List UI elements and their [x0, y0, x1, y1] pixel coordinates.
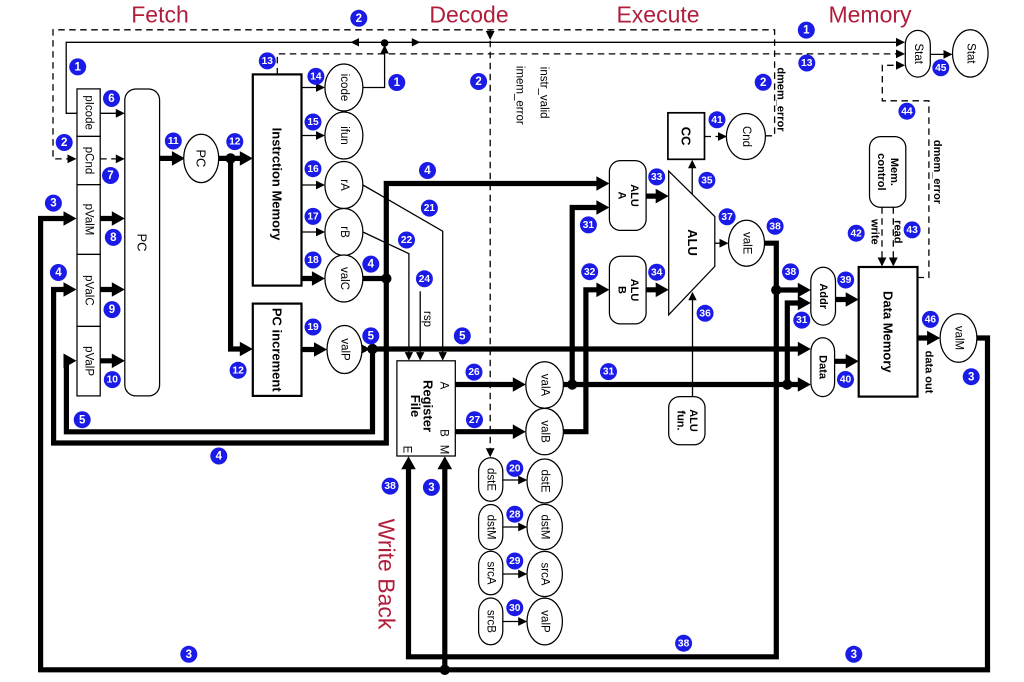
svg-text:9: 9 [109, 304, 115, 316]
node valC [325, 255, 363, 302]
svg-text:12: 12 [229, 137, 241, 148]
annotation circle 3 [845, 646, 862, 663]
wire dmem_error dashed (net 44): Data Memory -> Stat [882, 65, 929, 277]
annotation circle 31 [580, 216, 597, 233]
svg-text:Stat: Stat [912, 43, 924, 64]
arrowhead valA into Data [798, 377, 811, 392]
wire valC (net 4): valC -> ALU A and pValC [363, 276, 386, 281]
wire Register File M input vertical (net 3) [442, 462, 447, 670]
svg-text:valC: valC [338, 267, 350, 290]
svg-text:10: 10 [107, 375, 119, 386]
wire valA (net 31): valA -> ALU A, Addr, Data [563, 382, 787, 387]
svg-text:data out: data out [922, 351, 934, 394]
annotation circle 3 [45, 195, 62, 212]
wire CC to Cnd dashed [705, 136, 723, 138]
annotation circle 1 [69, 58, 86, 75]
svg-text:5: 5 [79, 414, 86, 426]
svg-text:43: 43 [906, 225, 918, 236]
svg-text:CC: CC [679, 127, 694, 146]
svg-text:2: 2 [475, 76, 481, 88]
annotation circle 43 [904, 221, 921, 238]
arrowhead pIcode into PC block [116, 109, 125, 118]
svg-text:45: 45 [935, 63, 947, 74]
annotation circle 5 [74, 411, 91, 428]
svg-text:PC: PC [194, 149, 209, 167]
arrowhead right direction marker on icode line [412, 38, 421, 46]
register PC [184, 134, 219, 182]
annotation circle 1 [388, 74, 405, 91]
svg-text:12: 12 [232, 365, 244, 376]
svg-text:rA: rA [338, 179, 350, 191]
svg-text:1: 1 [394, 77, 401, 89]
arrowhead write into Data Memory [878, 258, 887, 267]
alu ALU trapezoid [669, 171, 715, 315]
wire IM to valC (net 18) [302, 276, 320, 281]
mux Data [811, 338, 835, 397]
svg-text:PC: PC [135, 233, 150, 251]
annotation circle 12 [230, 362, 247, 379]
arrowhead up into junction [380, 45, 388, 54]
wire pCnd to PC logic dashed (net 7) [100, 158, 119, 160]
svg-text:dstM: dstM [539, 515, 551, 540]
annotation circle 38 [767, 218, 784, 235]
svg-text:pCnd: pCnd [83, 147, 95, 175]
wire rB to Register File B select (net 22) [363, 232, 409, 356]
svg-text:Memory: Memory [828, 2, 912, 28]
annotation circle 15 [305, 114, 322, 131]
block srcA select [479, 551, 503, 595]
arrowhead rB select into Register File [405, 352, 413, 361]
svg-text:PC increment: PC increment [270, 308, 285, 392]
svg-text:dstE: dstE [485, 468, 497, 491]
svg-text:2: 2 [356, 13, 362, 25]
annotation circle 2 [470, 73, 487, 90]
svg-text:27: 27 [469, 415, 481, 426]
wire mem control read dashed (net 43) [892, 207, 894, 261]
wire Register File A output to valA (net 26) [455, 382, 520, 387]
arrowhead ALU B into ALU [656, 283, 669, 298]
register pValP [77, 326, 100, 396]
wire srcA to srcA (net 29) [503, 573, 522, 575]
node srcA [527, 551, 562, 596]
annotation circle 3 [423, 479, 440, 496]
arrowhead E input into Register File [401, 456, 416, 469]
wire icode line (net 1): icode -> pIcode and Stat [363, 49, 385, 88]
annotation circle 36 [697, 305, 714, 322]
annotation circle 21 [421, 200, 438, 217]
wire valP (net 5): valP -> Data and pValP [362, 346, 366, 351]
arrowhead valM into pValM [64, 211, 77, 226]
arrowhead icode into Stat [896, 38, 905, 47]
svg-text:E: E [401, 446, 413, 454]
svg-text:4: 4 [55, 267, 62, 279]
wire ALU A output to ALU (net 33) [646, 194, 663, 199]
svg-text:valB: valB [539, 420, 551, 443]
annotation circle 12 [226, 133, 243, 150]
wire dstE to dstE (net 20) [503, 479, 522, 481]
wire valP branch down to pValP [66, 349, 372, 432]
arrowhead into dstE ellipse [518, 476, 527, 485]
svg-text:Write Back: Write Back [374, 519, 400, 630]
svg-text:fun.: fun. [675, 410, 687, 430]
wire IM to ifun (net 15) [302, 135, 320, 137]
arrowhead pValP into PC block [112, 354, 125, 369]
annotation circle 34 [648, 264, 665, 281]
svg-text:18: 18 [307, 255, 319, 266]
svg-text:control: control [875, 153, 887, 190]
svg-text:38: 38 [769, 221, 781, 232]
node junction valA at ALU A tap [567, 379, 577, 389]
arrowhead Data into Data Memory [846, 354, 859, 369]
arrowhead into rA [316, 181, 325, 190]
svg-text:Fetch: Fetch [131, 2, 189, 28]
svg-text:17: 17 [307, 212, 319, 223]
wire PC branch down to PC increment (net 12) [231, 158, 247, 349]
arrowhead left direction marker on icode line [351, 38, 360, 46]
annotation circle 20 [506, 460, 523, 477]
wire pIcode to PC logic (net 6) [100, 112, 119, 114]
svg-text:28: 28 [509, 509, 521, 520]
arrowhead Addr into Data Memory [846, 292, 859, 307]
wire Cnd feedback dashed (net 2): Cnd -> top -> pCnd [53, 30, 775, 159]
arrowhead into pCnd [68, 155, 77, 164]
svg-text:21: 21 [424, 203, 436, 214]
block dstE select [479, 458, 503, 502]
block Mem. control [870, 137, 906, 208]
arrowhead ALU A into ALU [656, 189, 669, 204]
svg-text:ALU: ALU [687, 409, 699, 432]
annotation circle 39 [837, 272, 854, 289]
node junction valA at Addr tap [782, 379, 792, 389]
svg-text:36: 36 [699, 308, 711, 319]
svg-text:Stat: Stat [964, 43, 976, 64]
wire valE feedback (net 38): valE -> Addr and Register File E [409, 243, 777, 657]
wire rsp constant (net 24) [419, 291, 421, 355]
svg-text:Data: Data [817, 355, 829, 380]
annotation circle 2 [755, 74, 772, 91]
svg-text:Data Memory: Data Memory [881, 291, 896, 373]
wire ALU to CC (net 35) [691, 165, 693, 194]
svg-text:7: 7 [107, 170, 113, 182]
annotation circle 27 [466, 411, 483, 428]
arrowhead into valB [513, 424, 526, 439]
arrowhead read into Data Memory [889, 258, 898, 267]
svg-text:File: File [408, 395, 423, 417]
svg-text:imem_error: imem_error [514, 66, 526, 125]
node junction valE wire at Addr tap [771, 285, 781, 295]
annotation circle 4 [50, 264, 67, 281]
svg-text:dstE: dstE [539, 469, 551, 492]
annotation circle 31 [600, 363, 617, 380]
svg-text:srcA: srcA [539, 563, 551, 586]
arrowhead into PC register [172, 151, 185, 166]
svg-text:M: M [438, 445, 450, 455]
wire icode horizontal run [66, 42, 899, 113]
wire rA to Register File A select (net 21) [363, 185, 443, 356]
block srcB select [479, 598, 503, 645]
annotation circle 32 [581, 263, 598, 280]
annotation circle 7 [102, 167, 119, 184]
node valM [940, 314, 977, 363]
svg-text:3: 3 [50, 198, 56, 210]
arrowhead into valE [720, 239, 729, 248]
annotation circle 10 [104, 371, 121, 388]
wire pValM to PC logic (net 8) [100, 216, 118, 221]
svg-text:ifun: ifun [338, 126, 350, 145]
annotation circle 42 [848, 225, 865, 242]
svg-text:11: 11 [168, 136, 179, 147]
svg-text:8: 8 [110, 232, 117, 244]
svg-text:3: 3 [851, 649, 857, 661]
block dstM select [479, 505, 503, 550]
wire pValP to PC logic (net 10) [100, 358, 118, 363]
svg-text:Execute: Execute [616, 2, 699, 28]
svg-text:16: 16 [307, 164, 319, 175]
arrowhead into icode [316, 83, 325, 92]
svg-text:31: 31 [796, 315, 808, 326]
svg-text:valP: valP [339, 338, 351, 361]
arrowhead data out into valM [927, 331, 940, 346]
wire Stat logic to Stat ellipse (net 45) [930, 53, 947, 55]
arrowhead rsp into Register File [416, 352, 424, 361]
svg-text:pValP: pValP [83, 346, 95, 376]
annotation circle 31 [793, 312, 810, 329]
svg-text:24: 24 [419, 274, 431, 285]
svg-text:icode: icode [338, 74, 350, 102]
svg-text:A: A [616, 192, 628, 200]
wire valM feedback (net 3): valM -> bottom -> pValM and Register File M [41, 219, 988, 670]
node icode [325, 64, 363, 111]
node valA [526, 362, 564, 408]
svg-text:Instrction Memory: Instrction Memory [270, 128, 285, 241]
register pValM [77, 185, 100, 255]
svg-text:Cnd: Cnd [740, 126, 752, 147]
svg-text:4: 4 [216, 451, 223, 463]
node Cnd [726, 114, 765, 160]
annotation circle 24 [416, 270, 433, 287]
wire valB to ALU B (net 32) [563, 290, 603, 432]
svg-text:write: write [869, 218, 881, 245]
annotation circle 37 [719, 208, 736, 225]
wire valP branch right to Data [368, 346, 805, 351]
wire PC increment to valP (net 19) [302, 347, 322, 352]
node junction icode line [381, 39, 389, 47]
arrowhead pValM into PC block [112, 211, 125, 226]
arrowhead PC into Instruction Memory [240, 151, 253, 166]
svg-text:6: 6 [108, 93, 114, 105]
block Register File [397, 361, 455, 456]
annotation circle 38 [675, 635, 692, 652]
annotation circle 4 [362, 256, 379, 273]
arrowhead into valC [312, 271, 325, 286]
node ifun [325, 112, 363, 159]
annotation circle 14 [307, 68, 324, 85]
svg-text:A: A [438, 382, 450, 390]
annotation circle 22 [398, 232, 415, 249]
wire valC branch down to pValC [54, 279, 387, 444]
node valB [526, 408, 564, 454]
arrowhead into CC [688, 160, 696, 169]
svg-text:pValM: pValM [83, 204, 95, 236]
svg-text:Decode: Decode [429, 2, 508, 28]
arrowhead PC into PC increment [240, 342, 253, 357]
svg-text:2: 2 [760, 77, 766, 89]
svg-text:rB: rB [338, 226, 350, 238]
block Data Memory [859, 267, 918, 397]
annotation circle 45 [932, 59, 949, 76]
wire srcB to valP (net 30) [503, 621, 522, 623]
svg-text:31: 31 [603, 367, 615, 378]
annotation circle 1 [798, 22, 815, 39]
mux ALU B [609, 256, 646, 324]
arrowhead into Stat (dmem_error) [896, 61, 905, 70]
svg-text:44: 44 [901, 106, 913, 117]
svg-text:31: 31 [583, 220, 595, 231]
svg-text:3: 3 [428, 482, 434, 494]
svg-text:pIcode: pIcode [83, 95, 95, 130]
wire dstM to dstM (net 28) [503, 526, 522, 528]
arrowhead into Cnd [718, 132, 727, 141]
node junction valC [381, 273, 391, 283]
svg-text:Addr: Addr [817, 283, 829, 309]
svg-text:ALU: ALU [628, 184, 640, 207]
svg-text:B: B [438, 429, 450, 437]
svg-text:Mem.: Mem. [888, 158, 900, 186]
annotation circle 40 [837, 371, 854, 388]
node junction PC output [225, 153, 235, 163]
annotation circle 2 [350, 10, 367, 27]
annotation circle 17 [305, 208, 322, 225]
arrowhead valB into ALU B [596, 283, 609, 298]
svg-text:22: 22 [401, 235, 413, 246]
wire mem control write dashed (net 42) [881, 207, 883, 261]
block PC selection logic [125, 89, 160, 396]
wire valE branch to Addr [776, 287, 805, 292]
annotation circle 8 [105, 229, 122, 246]
annotation circle 19 [305, 319, 322, 336]
svg-text:19: 19 [307, 322, 319, 333]
svg-text:3: 3 [186, 649, 192, 661]
annotation circle 28 [506, 506, 523, 523]
annotation circle 29 [506, 553, 523, 570]
svg-text:dmem_error: dmem_error [931, 140, 943, 205]
arrowhead into Stat (imem_error) [896, 50, 905, 59]
svg-text:3: 3 [968, 371, 974, 383]
wire valA branch up to ALU A [572, 208, 603, 385]
annotation circle 4 [419, 162, 436, 179]
svg-text:4: 4 [368, 259, 375, 271]
node dstM [527, 504, 562, 549]
annotation circle 3 [180, 646, 197, 663]
arrowhead into valP [314, 342, 327, 357]
annotation circle 18 [305, 252, 322, 269]
annotation circle 30 [506, 599, 523, 616]
svg-text:29: 29 [509, 556, 521, 567]
wire imem_error dashed (net 13): Instruction Memory top -> Stat [277, 54, 899, 75]
svg-text:37: 37 [721, 212, 733, 223]
arrowhead M input into Register File [438, 456, 453, 469]
node junction valM wire at M tap [440, 665, 450, 675]
arrowhead valP into pValP [64, 354, 77, 369]
wire PC register to Instruction Memory (net 12) [218, 156, 247, 161]
wire IM to icode (net 14) [302, 87, 320, 89]
svg-text:15: 15 [307, 117, 319, 128]
arrowhead pValC into PC block [112, 282, 125, 297]
svg-text:20: 20 [509, 464, 521, 475]
mux ALU A [609, 161, 646, 231]
wire ALU B output to ALU (net 34) [646, 287, 663, 292]
svg-text:valA: valA [539, 374, 551, 397]
wire dashed branch down to dstE (from net 2 line) [489, 30, 491, 452]
svg-text:1: 1 [74, 62, 81, 74]
svg-text:srcA: srcA [485, 562, 497, 585]
annotation circle 5 [454, 327, 471, 344]
block ALU fun. [669, 397, 705, 445]
wire Data to Data Memory (net 40) [835, 359, 853, 364]
svg-text:38: 38 [785, 267, 797, 278]
annotation circle 9 [104, 301, 121, 318]
arrowhead valP into junction [357, 342, 370, 357]
node rA [325, 162, 363, 209]
arrowhead valE into Addr [798, 283, 811, 298]
svg-text:pValC: pValC [83, 275, 95, 305]
wire valA branch up to Addr [787, 303, 805, 385]
annotation circle 4 [210, 448, 227, 465]
arrowhead valC into pValC [64, 282, 77, 297]
svg-text:instr_valid: instr_valid [538, 67, 550, 119]
arrowhead into srcA ellipse [518, 570, 527, 579]
svg-text:rsp: rsp [421, 311, 433, 327]
wire Addr to Data Memory (net 39) [836, 297, 854, 302]
svg-text:38: 38 [678, 638, 690, 649]
svg-text:4: 4 [424, 165, 431, 177]
block Instruction Memory [253, 74, 302, 285]
arrowhead valP into Data [798, 342, 811, 357]
node valP write-back [527, 598, 562, 645]
arrowhead down at top of dstE branch [486, 31, 495, 40]
node rB [325, 209, 363, 256]
annotation circle 6 [103, 90, 120, 107]
arrowhead into dstE block [486, 448, 495, 457]
svg-text:39: 39 [840, 275, 852, 286]
svg-text:1: 1 [803, 25, 810, 37]
node valE [729, 220, 765, 266]
svg-text:41: 41 [711, 115, 723, 126]
wire ALU to valE (net 37) [715, 242, 724, 244]
annotation circle 38 [782, 263, 799, 280]
svg-text:42: 42 [851, 228, 863, 239]
arrowhead into dstM ellipse [518, 523, 527, 532]
wire valA into Data [787, 382, 805, 387]
svg-text:34: 34 [651, 267, 663, 278]
register pIcode [77, 89, 100, 136]
wire IM to rB (net 17) [302, 231, 320, 233]
annotation circle 11 [165, 133, 182, 150]
svg-text:2: 2 [61, 137, 67, 149]
svg-text:srcB: srcB [485, 610, 497, 633]
arrowhead into valP ellipse [518, 617, 527, 626]
annotation circle 46 [922, 311, 939, 328]
svg-text:38: 38 [384, 481, 396, 492]
arrowhead into Stat ellipse [944, 50, 953, 59]
annotation circle 2 [56, 134, 73, 151]
annotation circle 26 [466, 364, 483, 381]
arrowhead valA into ALU A [596, 200, 609, 215]
node dstE [527, 459, 562, 503]
annotation circle 13 [259, 52, 276, 69]
wire Data Memory data out to valM (net 46) [918, 335, 935, 340]
annotation circle 35 [698, 172, 715, 189]
